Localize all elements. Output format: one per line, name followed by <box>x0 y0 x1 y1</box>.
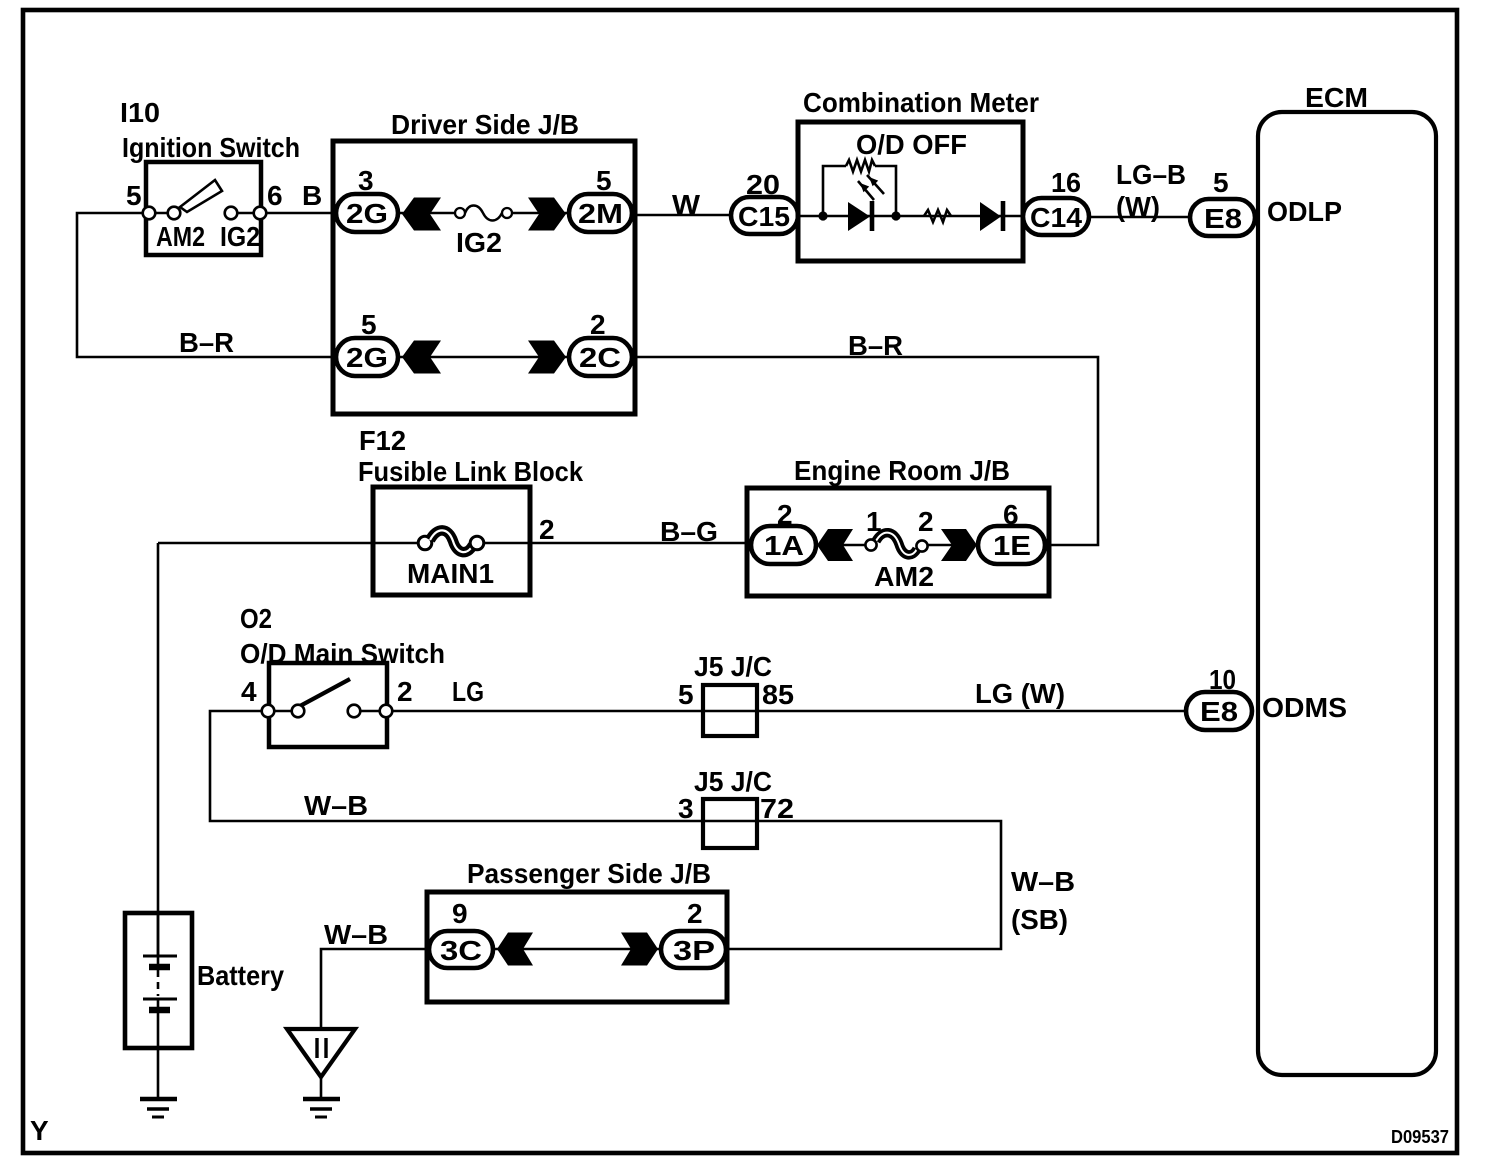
arrow left row1 driver <box>402 198 441 231</box>
svg-text:16: 16 <box>1051 167 1081 198</box>
svg-text:Ignition Switch: Ignition Switch <box>122 132 300 163</box>
diode D meter <box>980 202 1001 231</box>
svg-text:72: 72 <box>760 793 794 824</box>
svg-text:2: 2 <box>397 676 413 707</box>
svg-text:O/D OFF: O/D OFF <box>856 129 967 160</box>
arrow left passenger <box>497 933 533 966</box>
wire: ignition pin6 B to driver J/B 2G <box>260 212 336 215</box>
battery cell plate short 1 <box>149 964 170 971</box>
resistor parallel zigzag <box>846 160 875 172</box>
svg-text:LG (W): LG (W) <box>975 678 1065 709</box>
svg-text:IG2: IG2 <box>220 221 260 252</box>
arrow left row2 driver <box>402 341 441 374</box>
svg-text:ODMS: ODMS <box>1262 692 1347 723</box>
svg-text:D09537: D09537 <box>1391 1127 1449 1147</box>
svg-text:B: B <box>302 180 322 211</box>
svg-text:(W): (W) <box>1116 191 1160 222</box>
combination meter box <box>798 122 1023 261</box>
F12 fusible link block box <box>373 487 530 595</box>
wire: battery vertical feed <box>157 543 160 956</box>
svg-text:Battery: Battery <box>197 960 284 991</box>
svg-text:C14: C14 <box>1030 202 1082 233</box>
svg-text:2M: 2M <box>578 198 623 229</box>
fuse IG2 right circle <box>502 208 512 218</box>
ignition switch I10 box <box>146 162 261 255</box>
fuse AM2 left circle <box>865 539 876 550</box>
wire: W-B from 3C to ground triangle <box>321 949 429 1029</box>
connector 2C <box>569 338 632 376</box>
svg-text:C15: C15 <box>738 201 790 232</box>
fusible link MAIN1 element <box>430 530 473 552</box>
wire: passenger J/B internal 3C to 3P <box>493 948 661 951</box>
ground triangle bar 3 <box>315 1116 327 1119</box>
svg-text:ECM: ECM <box>1305 82 1368 113</box>
svg-text:B–R: B–R <box>179 327 234 358</box>
svg-text:Passenger Side J/B: Passenger Side J/B <box>467 858 711 889</box>
ignition switch AM2 contact <box>168 207 181 220</box>
ground battery bar 2 <box>147 1107 169 1111</box>
wire: combination meter internal main line <box>798 215 1023 218</box>
svg-text:3P: 3P <box>673 935 715 966</box>
wire: driver J/B row2 internal 2G to 2C <box>398 356 569 359</box>
svg-text:4: 4 <box>241 676 257 707</box>
fusible link MAIN1 left circle <box>418 536 432 550</box>
wire: W from 2M to C15 <box>632 214 731 217</box>
wire: W-B from switch pin4 down through J5 to 3P <box>210 711 1001 949</box>
O/D switch lever <box>300 679 350 706</box>
LED light arrow 1 <box>858 181 874 200</box>
F12 label <box>358 425 583 487</box>
svg-text:Engine Room J/B: Engine Room J/B <box>794 455 1010 486</box>
wire: B-R from 2C right to engine room J/B 1E <box>632 357 1098 545</box>
connector 2M <box>569 194 632 232</box>
battery cell plate short 2 <box>149 1007 170 1014</box>
fuse AM2 element <box>876 533 917 555</box>
connector 3P <box>661 931 726 968</box>
wire: battery internal dashed link <box>157 970 160 996</box>
O/D switch contact right <box>348 705 361 718</box>
ignition switch internal contact wires <box>152 212 257 215</box>
wire: ground triangle stem <box>320 1077 323 1099</box>
fusible link MAIN1 right circle <box>470 536 484 550</box>
passenger side J/B box <box>427 892 727 1002</box>
svg-text:2: 2 <box>539 514 555 545</box>
J5 J/C upper box <box>703 685 757 736</box>
connector 1A <box>751 526 816 564</box>
arrow right row2 driver <box>528 341 566 374</box>
svg-text:2C: 2C <box>579 342 621 373</box>
battery cell stems <box>157 956 160 1009</box>
node junction dot left <box>818 211 827 220</box>
svg-text:Combination Meter: Combination Meter <box>803 87 1039 118</box>
wire: LG / LG (W) from switch pin2 to E8 ODMS <box>386 710 1188 713</box>
svg-text:3: 3 <box>678 793 694 824</box>
svg-text:MAIN1: MAIN1 <box>407 558 494 589</box>
arrow right passenger <box>621 933 658 966</box>
fuse AM2 right circle <box>916 540 927 551</box>
svg-text:O2: O2 <box>240 603 272 634</box>
svg-text:5: 5 <box>678 679 694 710</box>
svg-text:(SB): (SB) <box>1011 904 1068 935</box>
resistor series zigzag <box>924 210 951 222</box>
svg-text:2G: 2G <box>346 198 388 229</box>
LED O/D OFF diode <box>848 202 870 231</box>
battery cell plate long 1 <box>143 955 177 958</box>
svg-text:5: 5 <box>126 180 142 211</box>
wire: ignition pin5 loop left and B-R to 2G row2 <box>77 213 336 357</box>
battery cell plate long 2 <box>143 998 177 1001</box>
ignition switch pin 6 terminal <box>254 207 267 220</box>
ignition switch pin 5 terminal <box>143 207 156 220</box>
wire: LG-B from C14 to E8 <box>1089 216 1192 219</box>
svg-text:B–G: B–G <box>660 516 718 547</box>
ECM box <box>1258 112 1436 1075</box>
node junction dot right <box>891 211 900 220</box>
ground battery bar 1 <box>140 1097 177 1102</box>
O/D main switch box <box>269 663 387 747</box>
ground triangle II mark <box>317 1038 326 1058</box>
O2 O/D main switch label <box>240 603 445 669</box>
svg-text:9: 9 <box>452 898 468 929</box>
ignition switch IG2 contact <box>225 207 238 220</box>
ground triangle body <box>287 1029 355 1077</box>
svg-text:LG–B: LG–B <box>1116 159 1186 190</box>
svg-text:2: 2 <box>918 506 934 537</box>
svg-text:LG: LG <box>452 676 484 707</box>
battery wire through top <box>157 913 160 956</box>
connector 3C <box>429 931 493 968</box>
connector 2G row1 <box>336 194 398 232</box>
LED cathode bar <box>870 201 875 231</box>
driver side J/B box <box>333 141 635 414</box>
wire: battery to ground <box>157 1010 160 1099</box>
svg-text:Fusible Link Block: Fusible Link Block <box>358 456 583 487</box>
connector E8 ODLP <box>1190 199 1255 236</box>
arrow right engine <box>941 529 977 561</box>
wire label W-B (SB) <box>1011 866 1075 935</box>
ground triangle bar 1 <box>303 1097 340 1102</box>
svg-text:I10: I10 <box>120 97 160 128</box>
diode bar <box>1001 201 1006 231</box>
svg-text:E8: E8 <box>1200 696 1238 727</box>
fuse IG2 left circle <box>455 208 465 218</box>
ground battery bar 3 <box>152 1116 164 1119</box>
svg-text:E8: E8 <box>1204 203 1242 234</box>
O/D switch pin 2 terminal <box>380 705 393 718</box>
svg-text:6: 6 <box>267 180 283 211</box>
svg-text:AM2: AM2 <box>156 221 205 252</box>
svg-text:IG2: IG2 <box>456 227 502 258</box>
ignition switch I10 label <box>120 97 300 163</box>
wire: battery feed to F12 and B-G to 1A <box>158 542 751 545</box>
svg-text:5: 5 <box>596 165 612 196</box>
svg-text:W: W <box>672 189 701 220</box>
battery box <box>125 913 192 1048</box>
svg-text:3C: 3C <box>440 935 482 966</box>
svg-text:F12: F12 <box>359 425 406 456</box>
engine room J/B box <box>747 488 1049 596</box>
connector C15 <box>731 197 798 234</box>
connector C14 <box>1023 198 1089 235</box>
svg-text:W–B: W–B <box>304 790 368 821</box>
svg-text:AM2: AM2 <box>874 561 934 592</box>
svg-text:1E: 1E <box>993 530 1031 561</box>
svg-text:5: 5 <box>1213 167 1229 198</box>
svg-text:ODLP: ODLP <box>1267 196 1342 227</box>
svg-text:J5 J/C: J5 J/C <box>694 651 772 682</box>
svg-text:Y: Y <box>30 1115 49 1146</box>
fuse IG2 element <box>465 206 502 221</box>
O/D switch contact left <box>292 705 305 718</box>
O/D switch pin 4 terminal <box>262 705 275 718</box>
svg-text:W–B: W–B <box>324 919 388 950</box>
wire: O/D main switch internal pin2 segment <box>354 710 386 713</box>
svg-text:2: 2 <box>590 309 606 340</box>
svg-text:W–B: W–B <box>1011 866 1075 897</box>
svg-text:3: 3 <box>358 165 374 196</box>
connector E8 ODMS <box>1186 692 1252 730</box>
svg-text:2G: 2G <box>346 342 388 373</box>
resistor parallel branch <box>823 166 896 216</box>
ground triangle bar 2 <box>310 1107 332 1111</box>
wire: engine room J/B internal 1A to 1E <box>816 544 978 547</box>
arrow left engine <box>817 529 853 561</box>
svg-text:Driver Side J/B: Driver Side J/B <box>391 109 579 140</box>
LED light arrow 2 <box>867 175 884 194</box>
svg-text:5: 5 <box>361 309 377 340</box>
svg-text:1A: 1A <box>764 530 804 561</box>
connector 2G row2 <box>336 338 398 376</box>
O/D switch internal contact wire <box>271 710 295 713</box>
ignition switch lever <box>180 180 222 212</box>
arrow right row1 driver <box>528 198 566 231</box>
J5 J/C lower box <box>703 799 757 848</box>
svg-text:85: 85 <box>762 679 794 710</box>
wire: driver J/B row1 internal 2G to 2M <box>398 212 569 215</box>
svg-text:B–R: B–R <box>848 330 903 361</box>
connector 1E <box>978 526 1045 564</box>
svg-text:2: 2 <box>687 898 703 929</box>
